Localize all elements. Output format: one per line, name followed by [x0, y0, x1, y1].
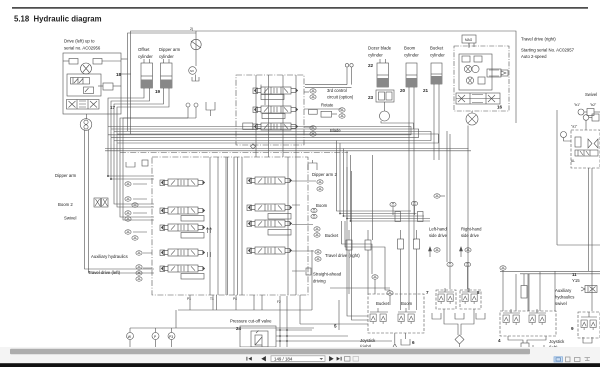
symbol detail 3: [69, 101, 98, 108]
converge under block 4: [508, 336, 523, 343]
port circle 2: [194, 103, 198, 107]
spool blade: [254, 123, 298, 130]
wire 45: [379, 59, 381, 63]
symbol detail 12: [429, 247, 432, 257]
wire 85: [344, 149, 425, 217]
junction dot 7: [286, 329, 288, 331]
boom2 coupler: [94, 198, 101, 207]
next page btn: [330, 357, 333, 361]
svg-text:Drive (left) up to: Drive (left) up to: [64, 39, 95, 44]
valve spool 4: [161, 265, 205, 272]
symbol detail 16: [208, 252, 211, 257]
valve body 11: [379, 92, 385, 100]
wire 125: [459, 344, 461, 347]
wire 73: [556, 110, 558, 245]
svg-text:P4: P4: [233, 297, 237, 301]
gauge port 9: [125, 211, 131, 215]
wire 82: [236, 157, 238, 295]
wire 55: [468, 43, 470, 47]
valve body 14: [431, 76, 442, 84]
wire 10: [121, 73, 131, 75]
symbol detail 11: [468, 115, 476, 123]
wire 72: [588, 168, 590, 271]
wire 127: [539, 272, 541, 311]
wire 95: [299, 295, 301, 324]
label 17: [110, 105, 116, 110]
gauge port 24: [315, 257, 321, 261]
label 18: [498, 338, 501, 343]
valve spool 2: [161, 224, 205, 231]
valve body 26: [268, 230, 291, 236]
straight-ahead valve: [306, 268, 311, 275]
valve body 45: [521, 343, 529, 349]
valve body 36: [142, 160, 148, 166]
label 4: [400, 88, 406, 93]
wire 23: [195, 107, 197, 118]
port circle 7: [578, 109, 584, 115]
unit 17 internals: top valve row: [69, 59, 78, 65]
symbol detail 18: [292, 181, 316, 271]
gauges top bank: [310, 89, 316, 93]
wire 20: [114, 88, 164, 204]
wire 129: [527, 274, 529, 311]
wire band: nested bus rectangles: [108, 127, 411, 135]
port circle 8: [583, 115, 589, 121]
wire 68: [594, 111, 600, 113]
junction dot 9: [286, 335, 288, 337]
valve body 7: [253, 124, 258, 130]
valve body 22: [575, 150, 598, 156]
symbol detail 7: [466, 67, 470, 72]
label: Drive (left) serial text: [64, 39, 101, 51]
side valve 16: [487, 69, 501, 77]
wire 128: [515, 274, 517, 311]
pump circle in 17: [81, 63, 92, 74]
wire 84: [340, 143, 417, 214]
wire 118: [394, 333, 396, 343]
wire 6: [98, 85, 103, 87]
label 14: [334, 324, 337, 329]
wire 62: [449, 134, 451, 262]
wire: right frame vertical: [557, 244, 600, 246]
valve body 30: [160, 250, 165, 256]
left arrows into bank: [133, 184, 152, 268]
wire 35: [295, 75, 297, 157]
gauge port 23: [315, 250, 321, 254]
top small valves: [462, 56, 470, 62]
svg-text:Bucket: Bucket: [325, 233, 339, 238]
pilot valve 10: [513, 315, 519, 325]
wire: lower right runs: [500, 270, 600, 272]
gauge port 17: [317, 180, 323, 184]
wire 5: [102, 60, 121, 62]
travel spool in 17: [67, 100, 100, 110]
wire 48: [381, 121, 414, 129]
svg-text:4: 4: [498, 338, 501, 343]
port circle 3: [345, 64, 348, 67]
port circle 6: [466, 77, 473, 84]
wire 1: [195, 31, 197, 66]
junction dot 3: [343, 215, 345, 217]
valve spool 5: [248, 204, 292, 211]
svg-text:"b1": "b1": [574, 103, 581, 107]
wire 90: [348, 250, 350, 294]
svg-text:Pressure cut-off valve: Pressure cut-off valve: [230, 319, 272, 324]
gauge port 22: [314, 233, 320, 237]
valve body 27: [160, 180, 165, 186]
wire 36: [260, 85, 262, 88]
svg-text:cylinder: cylinder: [404, 53, 419, 58]
wire 75: [554, 271, 556, 311]
label 20: [274, 357, 293, 362]
wire: cylinder drop lines to left bus: [108, 88, 154, 176]
wire 26: [210, 110, 212, 116]
symbol detail 20: [370, 308, 416, 312]
block 9: [571, 326, 574, 331]
svg-text:SV: SV: [190, 69, 194, 73]
valve body 8: [309, 109, 318, 114]
gauge port 3: [339, 114, 345, 118]
gauge port 2: [339, 108, 345, 112]
wire 57: [456, 98, 500, 100]
wire: cutoff risers: [279, 296, 281, 347]
wire 12: [89, 130, 155, 274]
valve body 3: [141, 80, 153, 89]
svg-text:9: 9: [571, 326, 574, 331]
aux box outline: [528, 274, 530, 311]
gauge port 10: [125, 217, 131, 221]
svg-text:T1: T1: [210, 297, 214, 301]
swivel joint circle top: [191, 39, 201, 49]
junction dot 10: [279, 340, 281, 342]
node 2) label: [190, 27, 193, 31]
svg-text:cylinder: cylinder: [368, 53, 383, 58]
svg-text:Dipper arm: Dipper arm: [55, 173, 77, 178]
page input box: [271, 356, 325, 362]
wire 108: [171, 328, 173, 333]
label 2: [368, 63, 374, 68]
wire 114: [338, 300, 340, 330]
svg-text:Swivel: Swivel: [64, 216, 76, 221]
valve body 5: [253, 88, 258, 94]
converge lines to diamond: [444, 309, 458, 335]
tank bracket mid: [206, 102, 215, 110]
left gauges: [125, 182, 131, 186]
svg-text:24: 24: [236, 326, 242, 331]
gauge port 12: [132, 236, 138, 240]
label: aux hydraulics swivel: [555, 272, 580, 306]
wire 30: [105, 148, 469, 150]
valve body 20: [592, 114, 599, 121]
boom cylinder: [406, 63, 417, 87]
svg-text:11: 11: [572, 272, 577, 277]
wire 138: [311, 250, 313, 310]
port circle 5: [472, 65, 479, 72]
dozer blade cylinder: [377, 63, 389, 87]
svg-text:side drive: side drive: [461, 233, 480, 238]
svg-text:hydraulics: hydraulics: [555, 295, 574, 300]
solenoid valve Y15: [585, 286, 597, 293]
wire 104: [175, 310, 177, 328]
symbol detail 14: [588, 139, 598, 148]
label 6: [465, 38, 473, 42]
right labels: [312, 172, 360, 284]
svg-text:2): 2): [190, 27, 193, 31]
tiny arrows pairs: [206, 228, 211, 233]
label: Offset cylinder: [138, 47, 181, 59]
wire 53: [438, 84, 440, 160]
junction dot 2: [339, 213, 341, 215]
svg-text:side drive: side drive: [429, 233, 448, 238]
svg-text:cylinder: cylinder: [430, 53, 445, 58]
wire 71: [585, 120, 587, 130]
tank + filter under block 6: [393, 344, 398, 348]
wire 63: [414, 206, 416, 215]
valve body 21: [575, 137, 581, 147]
symbol detail 28: [340, 357, 342, 361]
blade aux valve: [243, 123, 253, 130]
wire 83: [312, 160, 314, 163]
wire 109: [171, 340, 173, 348]
svg-text:Bucket: Bucket: [376, 301, 390, 306]
toolbar nav controls: [247, 356, 359, 362]
gauge port 16: [136, 277, 142, 281]
wire 117: [401, 339, 410, 345]
wire 9: [87, 100, 89, 110]
pilot valve 8: [471, 294, 477, 304]
wire 8: [76, 100, 78, 110]
wire 46: [385, 59, 387, 63]
svg-text:circuit (option): circuit (option): [327, 95, 354, 100]
svg-text:swivel: swivel: [555, 301, 567, 306]
label 19: [549, 339, 565, 350]
gauge port 25: [372, 275, 378, 279]
bottom gauge W: [127, 333, 134, 340]
wire: travel right drops: [467, 126, 469, 293]
wire 61: [446, 131, 448, 262]
outer frame wire: [131, 31, 517, 134]
wire 65: [416, 230, 418, 239]
svg-text:Blade: Blade: [330, 128, 341, 133]
side valve in 17: [103, 83, 113, 90]
upper inline pilot valves: [395, 212, 401, 222]
port circle 4: [350, 64, 353, 67]
casing bottom line: [178, 309, 312, 311]
svg-text:Rotate: Rotate: [321, 103, 334, 108]
wire 24: [120, 118, 188, 217]
wire 44: [377, 74, 389, 76]
wire 38: [304, 91, 309, 93]
wire 91: [367, 230, 369, 240]
svg-text:7: 7: [426, 290, 429, 295]
pump under unit 17: [80, 119, 92, 131]
valve body 15: [474, 56, 482, 62]
valve body 37: [102, 198, 109, 207]
svg-text:21: 21: [423, 88, 429, 93]
valve spool 3: [161, 249, 205, 256]
wire 42: [305, 84, 347, 86]
valve body 25: [268, 214, 291, 220]
svg-text:18: 18: [116, 72, 122, 77]
gauge port 14: [136, 265, 142, 269]
bank internal manifold verticals: [209, 157, 211, 295]
valve body 16: [478, 77, 485, 84]
wire 110: [286, 296, 288, 347]
svg-text:Travel drive (left): Travel drive (left): [88, 270, 121, 275]
symbol detail 15: [578, 150, 590, 156]
svg-text:Left-hand: Left-hand: [429, 227, 447, 232]
wire 137: [300, 323, 368, 325]
wire 107: [155, 340, 157, 348]
pilot valve 13: [581, 320, 587, 330]
svg-text:Joystick: Joystick: [549, 339, 565, 344]
label 15: [412, 340, 415, 345]
pilot valve 6: [447, 294, 453, 304]
valve body 33: [247, 205, 252, 211]
valve body 39: [251, 331, 268, 347]
wire 25: [123, 118, 196, 220]
tank brackets under 7/8: [432, 313, 441, 319]
wire 34: [282, 75, 284, 157]
wire 50: [431, 73, 442, 75]
valve body 34: [247, 221, 252, 227]
svg-text:Right-hand: Right-hand: [461, 227, 482, 232]
wire top-right risers: [346, 67, 348, 85]
inline pilot valves mid: [346, 240, 352, 250]
valve body 42: [436, 290, 456, 309]
label 9: [187, 297, 237, 301]
svg-text:Auto 2-speed: Auto 2-speed: [521, 54, 547, 59]
top valve bank dash-dot box: [236, 75, 304, 145]
valve body 2: [93, 59, 102, 65]
symbol detail 9: [489, 70, 506, 76]
wire 51: [413, 87, 415, 240]
valve underbox rotate: [262, 114, 285, 119]
wire 54: [468, 43, 470, 48]
pump SV: [189, 67, 197, 75]
wire 16: [161, 75, 173, 77]
main valve bank dash-dot boundary: [152, 157, 308, 295]
scrollbar thumb: [10, 349, 530, 355]
label: swivel top right: [585, 92, 597, 97]
check diamond: [251, 144, 256, 149]
gauge left of travel drop: [434, 194, 440, 198]
label: Dozer blade cylinder: [368, 46, 445, 58]
labels right of top bank: [321, 88, 354, 133]
label 17: [426, 290, 429, 295]
symbol detail 2: [73, 78, 83, 85]
svg-text:Travel drive (right): Travel drive (right): [325, 253, 360, 258]
svg-text:Travel drive (right): Travel drive (right): [521, 37, 556, 42]
wire 52: [433, 84, 435, 160]
gauge port 13: [136, 251, 142, 255]
block 8 travel joystick right: [477, 290, 480, 295]
swivel dashed box: [571, 130, 600, 168]
pilot valve 14: [590, 320, 596, 330]
pilot valve 7: [462, 294, 468, 304]
wire 120: [449, 267, 451, 289]
valve body 12: [386, 92, 392, 100]
symbol detail 24: [581, 287, 596, 292]
tank bracket bank top: [126, 162, 135, 167]
junction dot 11: [286, 340, 288, 342]
wire 21: [117, 88, 169, 207]
wire: drop to inline valves: [371, 155, 373, 240]
svg-text:P1: P1: [187, 297, 191, 301]
valve body 48: [554, 357, 563, 362]
two speed spool: [456, 93, 500, 104]
wire 134: [583, 337, 592, 343]
symbol detail 21: [438, 288, 454, 292]
wire 74: [564, 138, 572, 142]
port circle 1: [84, 87, 94, 94]
valve body 38: [365, 240, 371, 250]
wire 29: [117, 134, 438, 143]
symbol detail 29: [585, 358, 591, 361]
label 3: [368, 95, 374, 100]
right view-mode icons: [554, 357, 590, 362]
wire: lines into block 5/6: [347, 167, 368, 316]
valve body 18: [414, 239, 420, 249]
left labels: [55, 173, 128, 275]
wire 78: [233, 157, 235, 295]
label 18: [116, 72, 122, 77]
label: pressure cut-off valve: [230, 319, 272, 332]
wire 136: [352, 171, 369, 320]
wire 11: [86, 114, 88, 119]
svg-text:Auxiliary hydraulics: Auxiliary hydraulics: [91, 254, 128, 259]
wire 94: [330, 287, 390, 289]
svg-text:16: 16: [497, 105, 503, 110]
svg-text:Dipper arm: Dipper arm: [159, 47, 181, 52]
wire 132: [523, 274, 525, 286]
svg-text:20: 20: [400, 88, 406, 93]
symbol detail 8: [468, 78, 472, 83]
gauge mid right: [411, 201, 417, 205]
valve body 6: [253, 107, 258, 113]
pilot valve 9: [503, 315, 509, 325]
second TM gauge: [390, 202, 396, 206]
first page btn: [246, 357, 248, 361]
small inline valves travel pilot: [398, 239, 404, 249]
label 1: [190, 69, 194, 73]
wire 76: [217, 157, 219, 295]
wire 47: [384, 102, 386, 111]
wire 2: [191, 41, 201, 48]
wire 102: [129, 328, 131, 333]
wire 112: [276, 335, 348, 337]
svg-text:23: 23: [368, 95, 374, 100]
svg-text:Offset: Offset: [138, 47, 150, 52]
gauge port 7: [125, 197, 131, 201]
pressure cut-off valve block: [240, 326, 276, 347]
block 4 joystick left: [500, 266, 506, 270]
unit 16 inner frame: [459, 54, 492, 90]
wire 64: [400, 230, 402, 239]
svg-text:driving: driving: [313, 279, 326, 284]
spool under-boxes: [181, 216, 204, 222]
wire right verticals: [591, 168, 593, 311]
wire 13: [141, 75, 153, 77]
junction dot 6: [279, 329, 281, 331]
dozer pump circle: [380, 111, 390, 121]
wire: travel left verticals: [85, 130, 155, 270]
valve spool 7: [248, 247, 292, 254]
wire 69: [584, 111, 587, 113]
taskbar dark strip: [0, 363, 600, 367]
svg-text:"b2": "b2": [590, 103, 597, 107]
bottom scrollbar + toolbar area: [0, 347, 600, 363]
